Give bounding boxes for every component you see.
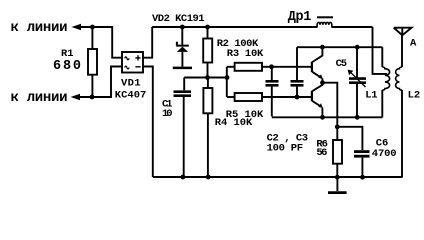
choke core bar (317, 16, 333, 18)
node junction C5 bottom (355, 115, 360, 120)
node junction divider branch (225, 75, 230, 80)
wire bottom-left with arrow (79, 67, 122, 98)
capacitor C1 (174, 90, 192, 93)
resistor R4 (207, 78, 209, 89)
wire top-left with arrow (79, 27, 122, 58)
svg-text:VD1: VD1 (121, 78, 141, 90)
svg-text:VD2 KC191: VD2 KC191 (152, 13, 205, 25)
node junction bottom-left (90, 95, 95, 100)
wire top rail right segment (332, 26, 373, 28)
wire supply drop to coil tap (373, 27, 387, 74)
antenna A (394, 28, 412, 36)
wire R3 to Q1 base (262, 66, 311, 68)
wire emitter node to R6 column (323, 83, 338, 127)
capacitor C5 trimmer (356, 47, 358, 77)
svg-text:R1: R1 (61, 48, 74, 60)
wire top rail left segment (152, 26, 317, 28)
node junction C2 top (269, 64, 274, 69)
wire R6 node to C6 (337, 127, 362, 150)
node junction R4 ground (206, 175, 211, 180)
svg-text:10: 10 (162, 108, 173, 120)
inductor L2 (401, 35, 403, 67)
svg-text:R4 10K: R4 10K (215, 117, 253, 129)
resistor R1 (88, 49, 97, 75)
node junction R2 top (205, 25, 210, 30)
zener diode VD2 (181, 27, 183, 45)
node junction C1 ground (181, 175, 186, 180)
node junction Q1 emitter / Q2 collector (320, 80, 325, 85)
capacitor C6 (354, 150, 370, 153)
node junction R6 top (335, 124, 340, 129)
wire R5 to Q2 base (262, 96, 311, 98)
capacitor C2 (271, 67, 273, 80)
node junction R2 bottom (205, 75, 210, 80)
wire node bias row (184, 77, 227, 79)
wire emitter line (272, 116, 383, 118)
svg-text:4700: 4700 (372, 148, 397, 160)
resistor R5 (227, 96, 235, 98)
node junction top-left (90, 25, 95, 30)
wire R1 top lead (91, 27, 93, 49)
inductor L1 (381, 47, 383, 67)
svg-text:L1: L1 (365, 89, 377, 101)
node junction Q2 emitter (320, 115, 325, 120)
node junction C3 bottom (295, 95, 300, 100)
wire bridge plus output to top rail (143, 27, 152, 58)
svg-text:Др1: Др1 (288, 10, 312, 25)
wire ground rail (153, 176, 403, 178)
svg-text:L2: L2 (408, 90, 421, 102)
svg-text:680: 680 (53, 59, 81, 74)
inductor choke Др1 (317, 22, 332, 27)
wire bridge minus to ground rail (143, 67, 153, 178)
wire R1 bottom lead (91, 75, 93, 97)
wire divider branch vertical (226, 67, 228, 97)
svg-text:56: 56 (316, 147, 327, 159)
wire C1 bottom lead (183, 97, 185, 177)
svg-text:KC407: KC407 (115, 90, 147, 102)
node junction R6 ground (335, 175, 340, 180)
wire R2 bottom lead (207, 63, 209, 78)
ground zener branch (173, 67, 192, 70)
node junction C5 top (355, 45, 360, 50)
wire collector rail (297, 46, 382, 48)
node junction C6 ground (360, 175, 365, 180)
svg-text:к линии: к линии (11, 90, 68, 106)
ground (336, 177, 338, 191)
svg-text:C5: C5 (336, 58, 348, 70)
resistor R3 (227, 66, 235, 68)
svg-text:к линии: к линии (11, 20, 68, 36)
node junction Q1 collector (320, 45, 325, 50)
svg-text:A: A (410, 37, 417, 49)
transistor Q2 (311, 91, 313, 102)
capacitor C3 (296, 47, 298, 80)
bridge rectifier VD1 (122, 52, 143, 73)
transistor Q1 (311, 62, 313, 73)
node junction zener top (180, 25, 185, 30)
wire C1 top lead (183, 78, 185, 91)
wire R2 top lead (207, 27, 209, 39)
resistor R6 (336, 127, 338, 140)
svg-text:R3 10K: R3 10K (227, 48, 264, 60)
resistor R2 (203, 39, 212, 63)
svg-text:100 PF: 100 PF (267, 142, 304, 154)
